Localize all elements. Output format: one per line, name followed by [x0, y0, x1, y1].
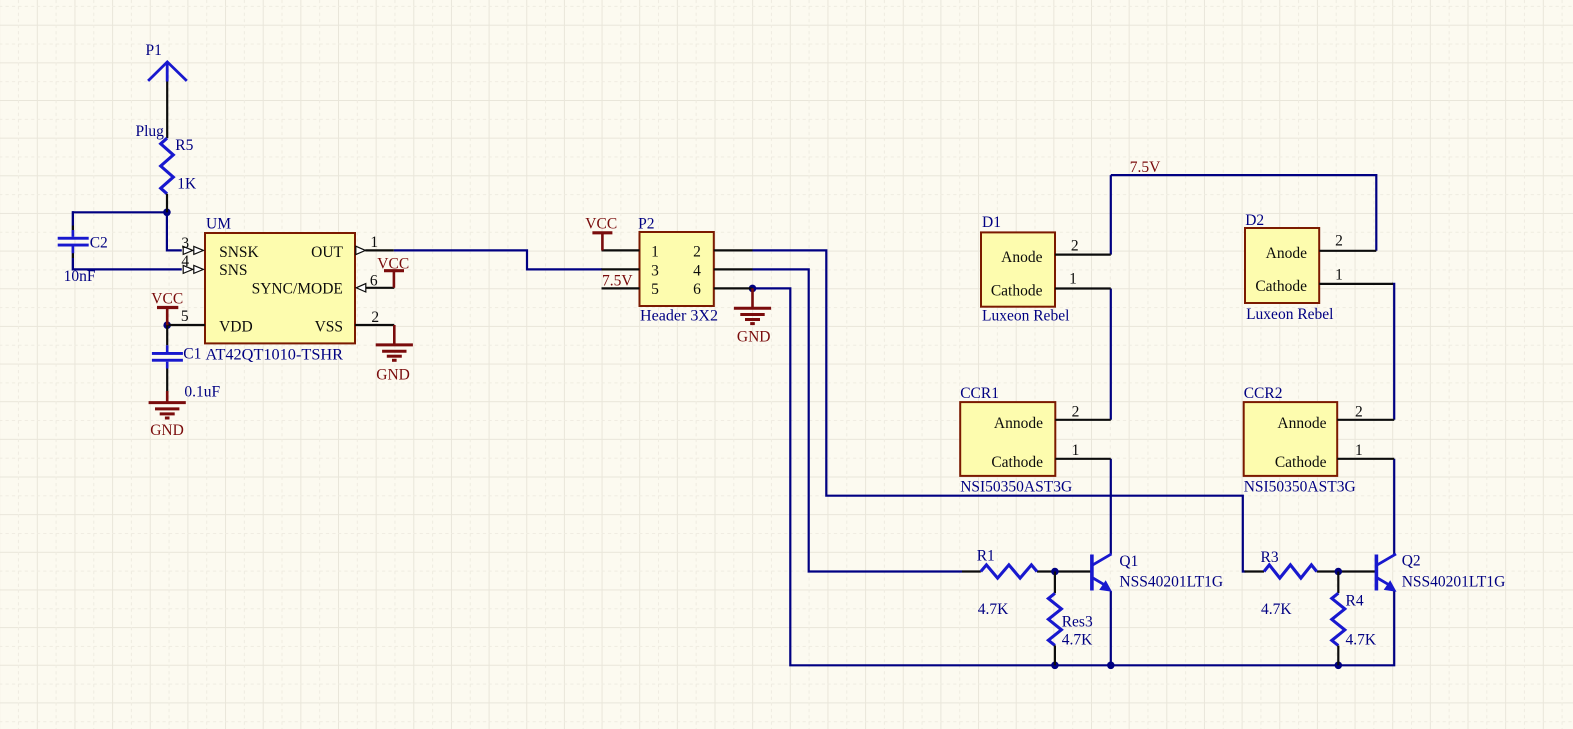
svg-text:5: 5: [651, 281, 659, 298]
wire D1 cathode down to CCR1 anode: [1110, 289, 1112, 420]
transistor Q2 NSS40201LT1G: [1376, 554, 1396, 592]
svg-text:10nF: 10nF: [64, 268, 96, 285]
CCR1 pin 2 annode: [1055, 419, 1111, 421]
svg-text:GND: GND: [737, 329, 771, 346]
svg-text:CCR2: CCR2: [1244, 385, 1283, 402]
svg-text:Res3: Res3: [1062, 613, 1093, 630]
svg-text:SNS: SNS: [219, 262, 247, 279]
ground GND below P2 pin6: [734, 288, 771, 323]
junction node VCC/C1/VDD: [163, 321, 171, 329]
svg-text:NSI50350AST3G: NSI50350AST3G: [960, 479, 1072, 496]
svg-text:P1: P1: [146, 42, 162, 59]
svg-text:Cathode: Cathode: [1275, 454, 1327, 471]
svg-text:4.7K: 4.7K: [978, 601, 1009, 618]
svg-text:2: 2: [371, 309, 379, 326]
svg-text:Luxeon Rebel: Luxeon Rebel: [982, 307, 1069, 324]
regulator CCR1 body: [960, 402, 1055, 476]
svg-text:5: 5: [181, 308, 189, 325]
svg-text:7.5V: 7.5V: [602, 272, 633, 289]
svg-text:Q1: Q1: [1119, 553, 1138, 570]
svg-text:0.1uF: 0.1uF: [184, 384, 220, 401]
svg-text:Cathode: Cathode: [991, 454, 1043, 471]
D1 pin 1 cathode: [1055, 287, 1111, 289]
junction node P2 pin6 GND: [749, 285, 757, 293]
CCR1 pin 1 cathode: [1055, 458, 1111, 460]
pin lead R3 right to Q2 base bar: [1317, 570, 1377, 572]
svg-text:NSS40201LT1G: NSS40201LT1G: [1402, 574, 1506, 591]
svg-text:VCC: VCC: [585, 216, 617, 233]
svg-text:SYNC/MODE: SYNC/MODE: [252, 281, 343, 298]
junction node Q1 emitter rail: [1107, 662, 1115, 670]
svg-text:R5: R5: [175, 137, 193, 154]
junction node Res3 bottom rail: [1051, 662, 1059, 670]
D1 pin 2 anode: [1055, 254, 1111, 256]
D2 pin 2 anode: [1319, 250, 1376, 252]
svg-text:4: 4: [693, 262, 701, 279]
CCR2 pin 2 annode: [1337, 419, 1394, 421]
UM pin 5 VDD pin: [167, 324, 205, 326]
svg-text:AT42QT1010-TSHR: AT42QT1010-TSHR: [206, 346, 344, 363]
power VCC at P2 pin1: [592, 233, 612, 251]
svg-text:GND: GND: [376, 367, 410, 384]
junction node R1/Res3/Q1 base: [1051, 568, 1059, 576]
UM pin 6 SYNC/MODE pin: [356, 284, 394, 292]
svg-text:Anode: Anode: [1266, 245, 1307, 262]
svg-text:D1: D1: [982, 214, 1001, 231]
wire junction R5 bottom to C2 top: [73, 212, 167, 236]
wire net from P2 pin4 to R1: [753, 269, 963, 571]
wire Q1 emitter down to GND rail: [1110, 591, 1112, 665]
svg-text:D2: D2: [1245, 212, 1264, 229]
P2 pin 1: [602, 249, 640, 251]
svg-text:NSI50350AST3G: NSI50350AST3G: [1244, 479, 1356, 496]
resistor R1 body 4.7K: [981, 565, 1037, 578]
P2 pin 3: [602, 268, 640, 270]
svg-text:CCR1: CCR1: [960, 385, 999, 402]
capacitor C1 body 0.1uF: [152, 325, 183, 391]
plug P1 antenna symbol: [148, 62, 187, 138]
svg-text:Cathode: Cathode: [991, 283, 1043, 300]
wire 7.5V rail to D2 anode: [1111, 175, 1377, 251]
svg-text:1: 1: [1355, 442, 1363, 459]
wire CCR2 cathode down to Q2 collector: [1393, 459, 1395, 554]
LED D2 body: [1245, 228, 1319, 303]
svg-text:2: 2: [1355, 404, 1363, 421]
svg-text:2: 2: [1335, 233, 1343, 250]
CCR2 pin 1 cathode: [1337, 458, 1394, 460]
svg-text:Q2: Q2: [1402, 553, 1421, 570]
UM pin 2 VSS pin: [355, 324, 394, 326]
wire R5 junction down to UM pin3: [167, 212, 182, 250]
header P2 body: [640, 232, 714, 306]
svg-text:VDD: VDD: [219, 318, 253, 335]
LED D1 body: [981, 232, 1055, 306]
svg-text:Cathode: Cathode: [1255, 278, 1307, 295]
wire D2 cathode down to CCR2 anode: [1392, 284, 1394, 420]
svg-text:4.7K: 4.7K: [1346, 631, 1377, 648]
svg-text:1: 1: [1069, 271, 1077, 288]
svg-text:P2: P2: [638, 215, 654, 232]
svg-text:UM: UM: [206, 215, 231, 232]
resistor R3 body 4.7K: [1264, 565, 1317, 578]
capacitor C2 body 10nF: [58, 211, 89, 270]
junction node R4 bottom rail: [1335, 662, 1343, 670]
ground GND below C1: [149, 391, 186, 418]
wire net from P2 pin2 to R3/Q2 base: [753, 250, 1246, 571]
svg-text:SNSK: SNSK: [219, 244, 259, 261]
ground GND below UM VSS: [376, 325, 413, 360]
svg-text:6: 6: [693, 281, 701, 298]
P2 pin 2: [714, 249, 753, 251]
svg-text:2: 2: [693, 244, 701, 261]
D2 pin 1 cathode: [1319, 283, 1393, 285]
svg-text:2: 2: [1071, 238, 1079, 255]
svg-text:VCC: VCC: [151, 290, 183, 307]
wire CCR1 cathode down to Q1 collector: [1110, 459, 1112, 554]
svg-text:7.5V: 7.5V: [1130, 159, 1161, 176]
IC UM AT42QT1010-TSHR body: [205, 233, 355, 343]
svg-text:Plug: Plug: [136, 123, 165, 140]
resistor R4 body 4.7K: [1332, 572, 1345, 666]
UM pin 3 SNSK glyph: [183, 246, 203, 254]
svg-text:R1: R1: [977, 548, 995, 565]
svg-text:C1: C1: [183, 345, 201, 362]
svg-text:VSS: VSS: [315, 318, 343, 335]
wire OUT net: UM pin1 to P2 pin3: [394, 250, 602, 269]
svg-text:6: 6: [370, 272, 378, 289]
svg-text:4: 4: [181, 253, 189, 270]
svg-text:4.7K: 4.7K: [1062, 631, 1093, 648]
svg-text:1: 1: [1335, 267, 1343, 284]
resistor R5 body 1K: [161, 138, 174, 212]
svg-text:VCC: VCC: [377, 256, 409, 273]
UM pin 4 SNS glyph: [183, 265, 203, 273]
svg-text:Annode: Annode: [1277, 415, 1326, 432]
svg-text:3: 3: [181, 235, 189, 252]
svg-text:1: 1: [370, 234, 378, 251]
junction node R5/C2/UM-SNSK: [163, 209, 171, 217]
svg-text:R4: R4: [1346, 593, 1364, 610]
P2 pin 5: [602, 287, 640, 289]
pin lead R1 left: [962, 570, 981, 572]
svg-text:GND: GND: [150, 422, 184, 439]
resistor Res3 body 4.7K: [1048, 572, 1061, 666]
wire C2 bottom to UM pin4: [73, 246, 182, 269]
svg-text:4.7K: 4.7K: [1261, 601, 1292, 618]
svg-text:1: 1: [1072, 442, 1080, 459]
power VCC at UM pin6: [384, 271, 404, 288]
pin lead R1 right to Q1 base bar: [1037, 570, 1092, 572]
svg-text:OUT: OUT: [311, 244, 343, 261]
svg-text:C2: C2: [90, 234, 108, 251]
regulator CCR2 body: [1244, 402, 1338, 476]
svg-text:2: 2: [1072, 404, 1080, 421]
svg-text:NSS40201LT1G: NSS40201LT1G: [1119, 574, 1223, 591]
svg-text:Anode: Anode: [1001, 249, 1042, 266]
svg-text:Annode: Annode: [994, 415, 1043, 432]
wire 7.5V rail drop to D1 anode: [1110, 175, 1112, 255]
power VCC above C1: [157, 308, 178, 326]
junction node R3/R4/Q2 base: [1335, 568, 1343, 576]
UM pin 1 OUT pin: [356, 246, 394, 254]
transistor Q1 NSS40201LT1G: [1092, 554, 1112, 592]
svg-text:Luxeon Rebel: Luxeon Rebel: [1246, 306, 1333, 323]
P2 pin 6: [714, 287, 753, 289]
svg-text:1K: 1K: [177, 176, 197, 193]
wire GND net: P2 pin6 along bottom rail to Q2 emitter: [753, 288, 1395, 665]
pin lead R3 left: [1245, 570, 1265, 572]
svg-text:3: 3: [651, 262, 659, 279]
svg-text:R3: R3: [1261, 549, 1279, 566]
svg-text:Header 3X2: Header 3X2: [640, 308, 718, 325]
P2 pin 4: [714, 268, 753, 270]
svg-text:1: 1: [651, 244, 659, 261]
